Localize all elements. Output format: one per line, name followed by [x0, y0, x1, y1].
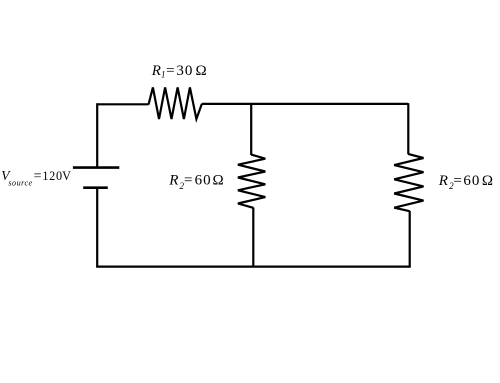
resistor R1 (30 ohm, horizontal zigzag): [149, 87, 202, 119]
svg-text:R1=30Ω: R1=30Ω: [151, 63, 207, 80]
resistor R2 (60 ohm, right vertical zigzag): [394, 154, 423, 211]
wire: top segment from top-left corner to R1: [97, 103, 148, 105]
wire: left branch upper (top-left corner down to battery): [96, 103, 98, 167]
wire: middle branch upper (top wire junction down to middle R2): [250, 104, 252, 155]
wire: middle branch lower (middle R2 down to bottom junction): [252, 208, 254, 267]
resistor R2 (60 ohm, middle vertical zigzag): [238, 155, 265, 208]
svg-text:R2=60Ω: R2=60Ω: [438, 173, 493, 191]
svg-text:R2=60Ω: R2=60Ω: [168, 173, 223, 191]
wire: bottom segment (bottom-left to bottom-right corner): [96, 266, 411, 268]
wire: right branch lower (right R2 down to bottom-right corner): [409, 211, 411, 267]
svg-text:Vsource=120V: Vsource=120V: [1, 168, 71, 188]
wire: left branch lower (battery down to bottom-left corner): [96, 188, 98, 267]
wire: top segment from R1 to top-right corner: [202, 103, 408, 105]
wire: right branch upper (top-right corner down to right R2): [407, 103, 409, 154]
battery V_source (two plates): [73, 168, 119, 188]
